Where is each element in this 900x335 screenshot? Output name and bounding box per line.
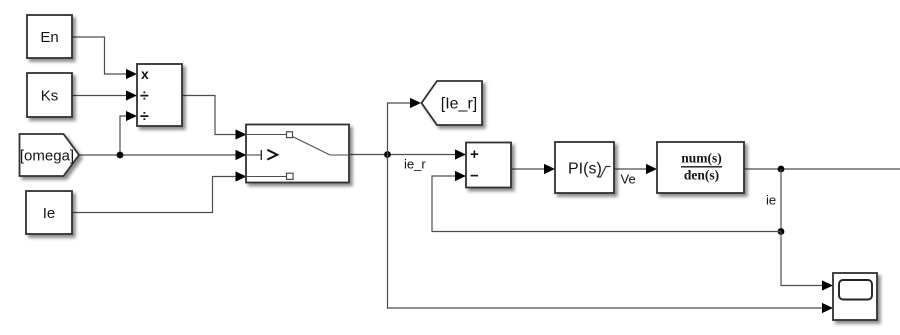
switch internal line port1	[246, 134, 287, 136]
junction dot omega branch	[117, 152, 124, 159]
sum plus sign	[470, 146, 479, 163]
product symbol x	[141, 66, 149, 82]
junction dot ie_r	[384, 151, 391, 158]
sum minus sign	[470, 167, 479, 184]
wire switch output to sum plus	[349, 154, 456, 156]
scope screen	[839, 280, 872, 300]
svg-text:[Ie_r]: [Ie_r]	[441, 96, 477, 113]
wire branch omega up to product port3	[120, 116, 127, 155]
scope block	[833, 273, 877, 320]
arrow into product port3	[126, 111, 137, 121]
switch threshold bar	[260, 150, 262, 160]
svg-text:÷: ÷	[140, 88, 149, 105]
wire sum to PI	[511, 168, 545, 170]
svg-text:÷: ÷	[140, 109, 149, 126]
wire omega to switch port2	[79, 154, 237, 156]
constant Ks	[27, 73, 72, 117]
svg-text:ie_r: ie_r	[404, 157, 426, 172]
junction dot ie	[778, 166, 785, 173]
arrow into sum plus	[455, 149, 466, 159]
wire branch down to scope port2	[388, 155, 824, 309]
arrow into switch port1	[236, 129, 247, 139]
arrow into switch port2	[236, 150, 247, 160]
constant En	[27, 15, 72, 58]
arrow into sum minus	[455, 171, 466, 181]
svg-text:PI(s): PI(s)	[568, 161, 602, 178]
wire branch up to goto Ie_r	[388, 103, 412, 155]
svg-text:x: x	[141, 66, 149, 82]
constant Ie	[26, 191, 72, 234]
svg-text:Ie: Ie	[43, 205, 56, 222]
product symbol divide 2	[140, 109, 149, 126]
wire product to switch port1	[182, 96, 237, 135]
transfer fcn block	[657, 142, 744, 193]
switch criteria symbol	[267, 150, 277, 160]
product symbol divide 1	[140, 88, 149, 105]
PI controller block	[555, 142, 614, 193]
svg-text:den(s): den(s)	[684, 167, 719, 182]
arrow into transfer fcn	[646, 164, 657, 174]
switch port1 square	[287, 132, 293, 138]
arrow into scope port2	[822, 303, 833, 313]
junction dot feedback	[778, 228, 785, 235]
wire Ie to switch port3	[72, 177, 237, 213]
arrow into PI	[544, 164, 555, 174]
arrow into product port2	[126, 90, 137, 100]
label ie_r	[404, 157, 426, 172]
sum block	[466, 143, 511, 188]
switch internal line output	[330, 154, 349, 156]
wire En to product	[71, 37, 127, 74]
switch block	[246, 125, 349, 183]
label Ve	[621, 172, 636, 187]
svg-text:−: −	[470, 167, 479, 184]
svg-text:En: En	[40, 29, 58, 46]
wire transfer fcn output to right edge	[744, 168, 900, 170]
from tag omega	[20, 134, 80, 176]
svg-text:+: +	[470, 146, 479, 163]
wire Ks to product	[71, 95, 127, 97]
goto tag Ie_r	[422, 81, 483, 125]
svg-text:[omega]: [omega]	[20, 148, 74, 165]
label ie	[766, 193, 776, 208]
arrow into goto Ie_r	[410, 98, 421, 108]
arrow into product port1	[126, 69, 137, 79]
arrow into switch port3	[236, 171, 247, 181]
arrow into scope port1	[822, 280, 833, 290]
wire feedback to sum minus	[432, 176, 781, 232]
wire PI to transfer fcn	[614, 168, 647, 170]
svg-text:num(s): num(s)	[681, 151, 722, 166]
wire down to scope port1	[781, 232, 823, 286]
switch port3 square	[287, 173, 294, 179]
wire feedback down from ie junction	[780, 169, 782, 232]
switch internal line port2	[246, 154, 261, 156]
switch internal line port3	[246, 176, 287, 178]
product block	[137, 64, 182, 126]
switch selector diagonal	[293, 137, 331, 156]
svg-text:ie: ie	[766, 193, 776, 208]
svg-text:Ve: Ve	[621, 172, 636, 187]
svg-text:Ks: Ks	[41, 88, 59, 105]
PI saturation squiggle	[598, 167, 611, 178]
